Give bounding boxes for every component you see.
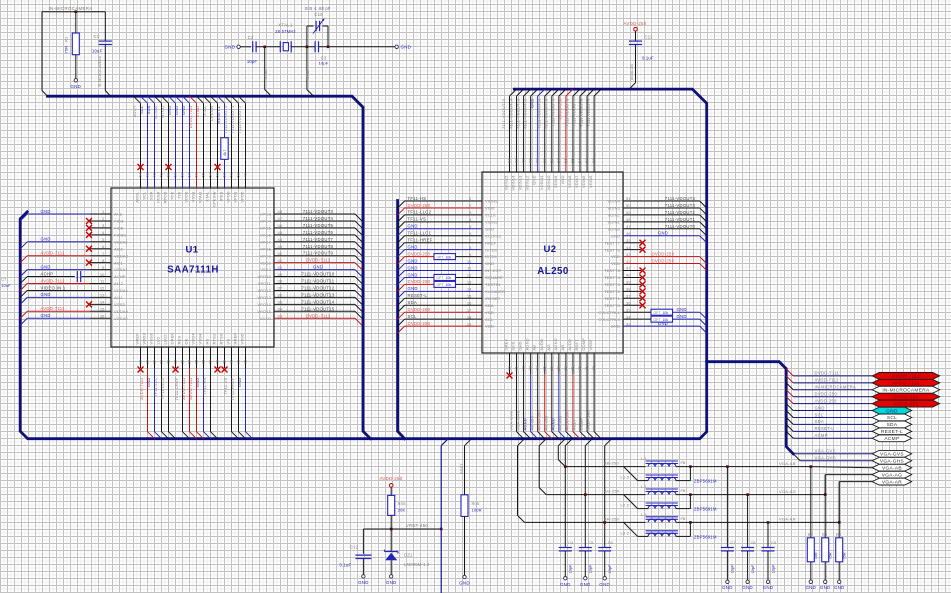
svg-text:7111-VDOUT12: 7111-VDOUT12	[522, 98, 527, 129]
svg-text:AVDD-250: AVDD-250	[893, 401, 918, 407]
svg-text:FIDE: FIDE	[114, 226, 124, 231]
svg-text:GND: GND	[677, 307, 687, 312]
wire U2 pin 60 to U2 top bus	[538, 89, 545, 96]
wire U2 pin 55 to U2 top bus	[573, 89, 580, 96]
svg-text:IN-MICROCAMERA: IN-MICROCAMERA	[882, 387, 930, 393]
svg-text:AVDD: AVDD	[539, 339, 544, 350]
wire U1 pin 32 to bottom bus, net GND	[245, 368, 247, 432]
junction	[327, 46, 330, 49]
svg-text:GHS: GHS	[518, 341, 523, 350]
U2 pin 23 (AGND) bottom stub	[530, 353, 532, 374]
inductor L2 (dual winding ferrite)	[646, 488, 678, 490]
wire U2 pin 14 to TF11 bus, net GND	[405, 290, 482, 292]
zener diode DZ1	[390, 529, 392, 552]
wire U1 pin 39 to bus, net 7111-VDOUT10	[274, 276, 355, 278]
svg-text:VREF-250: VREF-250	[406, 523, 428, 528]
wire U1 pin 18 to bottom bus, net AVDD-7111	[147, 368, 149, 432]
wire U2 pin 52 to U2 top bus	[594, 89, 601, 96]
svg-text:0.1uF: 0.1uF	[642, 56, 654, 61]
wire U2 pin 48 to bus, net 7111-VDOUT1	[623, 221, 700, 223]
U1 pin 21 (LLC2) bottom stub	[168, 347, 170, 368]
svg-text:U2: U2	[544, 244, 557, 255]
svg-text:VGA-AB: VGA-AB	[882, 465, 902, 471]
svg-text:DVDD-250: DVDD-250	[408, 251, 431, 256]
svg-text:ISTD1: ISTD1	[485, 254, 498, 259]
svg-text:5: 5	[469, 224, 472, 229]
U1 pin 1 (AI-E) left stub	[90, 213, 111, 215]
svg-text:GND: GND	[805, 585, 816, 590]
wire U2 pin 21 to bottom bus, net VGA-GVS	[516, 374, 518, 432]
no-connect X on U2 pin 38	[640, 288, 646, 294]
svg-text:C8: C8	[751, 541, 756, 545]
no-connect X on U1 pin 64	[138, 164, 144, 170]
junction	[440, 528, 443, 531]
svg-text:IN-MICROCAMERA: IN-MICROCAMERA	[49, 6, 93, 11]
svg-text:31: 31	[584, 365, 589, 370]
wire bus TOP-U1 (net bundle over SAA7111H)	[48, 96, 371, 439]
wire U1 pin 36 to bus, net 7111-VDOUT13	[274, 296, 355, 298]
wire U2 pin 6 to TF11 bus, net TF11-LLC1	[405, 235, 482, 237]
svg-text:7111-VDOUT6: 7111-VDOUT6	[579, 98, 584, 127]
net flag VGA-GHS	[872, 457, 912, 464]
svg-text:39: 39	[626, 280, 631, 285]
svg-text:39: 39	[278, 272, 283, 277]
svg-text:19: 19	[467, 321, 472, 326]
svg-text:VPO3: VPO3	[260, 212, 272, 217]
svg-text:RESET-L: RESET-L	[815, 426, 835, 431]
wire U1 pin 54 to top bus	[204, 96, 211, 103]
resistor OPT pull on U2 pin 34	[651, 316, 673, 322]
svg-text:AR-250: AR-250	[604, 516, 620, 521]
junction	[689, 493, 692, 496]
svg-text:28: 28	[215, 359, 220, 364]
svg-text:61: 61	[159, 172, 164, 177]
svg-text:AVDD-7111: AVDD-7111	[188, 377, 193, 400]
U1 pin 56 (VSS1) top stub	[196, 103, 198, 188]
svg-text:VDIN1: VDIN1	[607, 219, 620, 224]
svg-text:AVDD-7111: AVDD-7111	[41, 278, 66, 283]
svg-text:10pF: 10pF	[589, 564, 593, 574]
svg-text:2: 2	[102, 216, 105, 221]
svg-text:TESTT2: TESTT2	[604, 289, 620, 294]
ground	[584, 577, 587, 580]
svg-text:46: 46	[626, 231, 631, 236]
svg-text:GND: GND	[70, 84, 81, 89]
wire U1 pin 42 to bus, net 7111-VDOUT9	[274, 255, 355, 257]
svg-text:GND: GND	[658, 321, 668, 326]
svg-text:ZBF5691M: ZBF5691M	[694, 534, 717, 539]
svg-text:7111-VDOUT4: 7111-VDOUT4	[665, 196, 696, 201]
U1 pin 57 (VDD1) top stub	[189, 103, 191, 188]
wire U1 pin 56 to top bus	[190, 96, 197, 103]
svg-text:VDD: VDD	[485, 324, 494, 329]
svg-text:TESTT6: TESTT6	[604, 247, 620, 252]
wire U2 pin 2 to TF11 bus, net DVDD-250	[405, 207, 482, 209]
capacitor C7 (series on ACHP wire)	[76, 271, 78, 282]
no-connect X on U1 pin 6	[86, 246, 92, 252]
no-connect X on U1 pin 60	[166, 164, 172, 170]
svg-text:12: 12	[100, 286, 105, 291]
wire lower winding right (joins upper)	[676, 508, 691, 510]
svg-text:CPESW: CPESW	[209, 105, 214, 121]
capacitor C1	[99, 40, 112, 42]
svg-text:VID0: VID0	[485, 206, 495, 211]
svg-text:25: 25	[194, 359, 199, 364]
svg-text:GND: GND	[41, 209, 51, 214]
svg-text:10: 10	[467, 259, 472, 264]
svg-text:INT-EXT: INT-EXT	[485, 268, 502, 273]
svg-text:VGA-GVS: VGA-GVS	[815, 449, 836, 454]
wire U2 pin 62 to U2 top bus	[524, 89, 531, 96]
svg-text:ZBF5691M: ZBF5691M	[694, 479, 717, 484]
net flag DVDD-7111	[872, 373, 940, 380]
resistor R4 termination	[838, 482, 840, 538]
svg-text:SAA7111H: SAA7111H	[167, 265, 219, 276]
wire R4 to GND	[838, 562, 840, 580]
svg-text:FB: FB	[681, 461, 686, 465]
U2 pin 61 (VDIN12) top stub	[530, 96, 532, 172]
svg-text:45: 45	[278, 230, 283, 235]
wire AGND drop to C4	[565, 439, 572, 446]
wire U2 pin 15 to TF11 bus, net RESET-L	[405, 297, 482, 299]
svg-text:38: 38	[278, 279, 283, 284]
svg-text:SDA: SDA	[149, 191, 154, 200]
svg-text:64: 64	[138, 172, 143, 177]
svg-text:7111-VDOUT1: 7111-VDOUT1	[665, 217, 696, 222]
svg-text:LM385M-1.2: LM385M-1.2	[404, 562, 430, 567]
svg-text:AB: AB	[532, 345, 537, 351]
resistor R7 (on RESET-L wire)	[221, 138, 228, 160]
svg-text:GND: GND	[408, 244, 418, 249]
svg-text:C9: C9	[771, 541, 776, 545]
wire U1 pin 26 to bottom bus, net GND	[203, 368, 205, 432]
wire lower winding right (joins upper)	[676, 480, 691, 482]
svg-text:1: 1	[469, 196, 472, 201]
no-connect X on U2 pin 45	[640, 240, 646, 246]
svg-text:DVDD-7111: DVDD-7111	[815, 371, 840, 376]
wire U2 pin 34 to bus, net GND	[673, 318, 700, 320]
svg-text:11: 11	[467, 266, 472, 271]
resistor R1	[75, 12, 77, 33]
wire to flag DVDD-250	[786, 390, 793, 397]
svg-text:TF11-HREF: TF11-HREF	[408, 238, 433, 243]
svg-text:44: 44	[626, 245, 631, 250]
svg-text:75R: 75R	[829, 552, 833, 559]
wire U2 pin 9 to TF11 bus, net DVDD-250	[405, 256, 434, 258]
wire U2 pin 31 to bottom bus, net COMP	[586, 374, 588, 432]
svg-text:VPO8: VPO8	[260, 246, 272, 251]
svg-text:XTALI: XTALI	[264, 69, 268, 79]
svg-text:AL250: AL250	[537, 266, 569, 277]
wire bus TF11 (between U1 and U2, x=397.6)	[398, 201, 405, 439]
svg-text:TF11-LLC: TF11-LLC	[153, 378, 158, 397]
wire U2 pin 43 to bus, net DVDD-250	[623, 256, 700, 258]
svg-text:34: 34	[626, 314, 631, 319]
svg-text:33: 33	[626, 321, 631, 326]
wire C11 to U2 top bus	[635, 45, 637, 83]
svg-text:SDA: SDA	[485, 303, 494, 308]
U1 pin 29 (RTS0) bottom stub	[224, 347, 226, 368]
U2 pin 28 (AR) bottom stub	[565, 353, 567, 374]
ground	[824, 580, 827, 583]
svg-text:14: 14	[100, 300, 105, 305]
svg-text:7111-VDOUT5: 7111-VDOUT5	[303, 223, 334, 228]
svg-text:32: 32	[591, 365, 596, 370]
U1 pin 7 (VDDA2) left stub	[90, 255, 111, 257]
svg-text:DVDD-7111: DVDD-7111	[306, 258, 331, 263]
svg-text:50: 50	[236, 172, 241, 177]
svg-text:C2: C2	[248, 35, 254, 40]
svg-text:AI21: AI21	[114, 260, 123, 265]
svg-text:AI22: AI22	[114, 246, 123, 251]
resistor R06 (RSET)	[465, 439, 472, 446]
svg-text:52: 52	[222, 172, 227, 177]
svg-text:R05: R05	[398, 501, 406, 506]
svg-text:GND: GND	[408, 224, 418, 229]
wire U2 pin 56 to U2 top bus	[566, 89, 573, 96]
svg-text:C11: C11	[645, 35, 653, 40]
svg-text:34: 34	[278, 307, 283, 312]
wire choke output	[676, 521, 839, 523]
svg-text:TF11-LLC2: TF11-LLC2	[408, 210, 432, 215]
svg-text:RTCO: RTCO	[163, 192, 168, 204]
svg-text:7111-VDOUT10: 7111-VDOUT10	[544, 98, 549, 129]
ground	[746, 580, 749, 583]
wire AR-250 from bus	[518, 439, 525, 446]
svg-text:75R: 75R	[814, 552, 818, 559]
svg-text:25: 25	[542, 365, 547, 370]
svg-text:VCLK: VCLK	[485, 213, 496, 218]
svg-text:VIDHS: VIDHS	[485, 199, 498, 204]
wire U1 pin 27 to bottom bus, net TF11-HS	[210, 368, 212, 432]
wire U1 pin 55 to top bus	[197, 96, 204, 103]
U2 pin 27 (AGND) bottom stub	[558, 353, 560, 374]
svg-text:AVDD-250: AVDD-250	[379, 476, 402, 481]
svg-text:36: 36	[626, 300, 631, 305]
svg-text:VDIN2: VDIN2	[607, 213, 620, 218]
resistor R3 termination	[824, 475, 826, 538]
U1 pin 17 (VREF) bottom stub	[140, 347, 142, 368]
U1 pin 55 (XTALI) top stub	[203, 103, 205, 188]
svg-text:VSS4: VSS4	[198, 333, 203, 344]
svg-text:18: 18	[145, 359, 150, 364]
svg-text:64: 64	[507, 158, 512, 163]
svg-text:VDIN3: VDIN3	[607, 206, 620, 211]
svg-text:AG-250: AG-250	[604, 489, 620, 494]
svg-text:VGA-AR: VGA-AR	[882, 479, 902, 485]
svg-text:61: 61	[528, 158, 533, 163]
svg-text:20: 20	[507, 365, 512, 370]
svg-text:10pF: 10pF	[771, 564, 775, 574]
svg-text:VIDEO IN 1: VIDEO IN 1	[41, 285, 66, 290]
svg-text:L1.2: L1.2	[621, 475, 630, 480]
svg-text:FID3: FID3	[114, 219, 124, 224]
svg-text:29: 29	[222, 359, 227, 364]
wire U1 pin 43 to bus, net 7111-VDOUT8	[274, 248, 355, 250]
svg-text:XTAL: XTAL	[306, 70, 310, 79]
svg-text:VPO15: VPO15	[257, 309, 271, 314]
svg-text:VDD: VDD	[611, 261, 620, 266]
svg-text:7111-VDOUT9: 7111-VDOUT9	[303, 251, 334, 256]
svg-text:VIDNS: VIDNS	[485, 219, 498, 224]
svg-text:4k7: 4k7	[223, 150, 227, 156]
svg-text:VGA-AR: VGA-AR	[779, 517, 796, 522]
svg-text:VPO14: VPO14	[257, 302, 271, 307]
svg-text:R06: R06	[472, 501, 480, 506]
svg-text:62: 62	[152, 172, 157, 177]
wire to flag IN-MICROCAMERA	[786, 383, 793, 390]
wire to VGA flag	[824, 475, 826, 495]
svg-text:TESTIN: TESTIN	[485, 282, 500, 287]
wire R06 to GND	[464, 516, 466, 575]
U2 pin 56 (VDD) top stub	[565, 96, 567, 172]
svg-text:9: 9	[102, 265, 105, 270]
svg-text:XTALI: XTALI	[198, 192, 203, 204]
svg-text:ISTD0: ISTD0	[485, 247, 498, 252]
U1 pin 19 (VSS3) bottom stub	[154, 347, 156, 368]
svg-text:24: 24	[535, 365, 540, 370]
wire U2 pin 35 to bus, net GND	[673, 311, 700, 313]
wire lower winding right (joins upper)	[676, 535, 691, 537]
no-connect X on U2 pin 40	[640, 274, 646, 280]
wire U1 pin 23 to bottom bus, net TF11-CREF	[182, 368, 184, 432]
svg-text:13: 13	[467, 280, 472, 285]
wire C4 to GND	[564, 551, 566, 576]
svg-text:AVDD-250: AVDD-250	[815, 398, 837, 403]
svg-text:VPO0: VPO0	[226, 191, 231, 203]
capacitor C9 tap	[767, 522, 769, 547]
junction node XTALI	[263, 46, 266, 49]
wire U2 pin 16 to TF11 bus, net SDA	[405, 304, 482, 306]
svg-text:7111-VDOUT0: 7111-VDOUT0	[665, 224, 696, 229]
svg-text:7111-VDOUT3: 7111-VDOUT3	[665, 203, 696, 208]
svg-text:50: 50	[626, 203, 631, 208]
svg-text:7: 7	[469, 238, 472, 243]
svg-text:57: 57	[556, 158, 561, 163]
wire U1 pin 1 to left bus, net GND	[27, 213, 90, 215]
svg-text:26: 26	[201, 359, 206, 364]
junction	[746, 493, 749, 496]
svg-text:GND: GND	[41, 292, 51, 297]
svg-text:21: 21	[166, 359, 171, 364]
svg-text:45: 45	[626, 238, 631, 243]
wire U1 pin 53 to top bus	[211, 96, 218, 103]
svg-text:7111-VDOUT14: 7111-VDOUT14	[508, 98, 513, 129]
svg-text:GND: GND	[611, 324, 620, 329]
svg-text:GND: GND	[529, 99, 534, 109]
wire U1 pin 64 to top bus	[134, 96, 141, 103]
ground	[603, 577, 606, 580]
svg-text:19: 19	[152, 359, 157, 364]
svg-text:GND: GND	[146, 378, 151, 388]
resistor R2 termination	[810, 467, 812, 538]
wire C7 to GND	[726, 551, 728, 580]
svg-text:TESTT0: TESTT0	[604, 303, 620, 308]
svg-text:VPO11: VPO11	[258, 281, 272, 286]
svg-text:GND: GND	[459, 581, 470, 586]
svg-text:SCL: SCL	[887, 415, 897, 421]
svg-text:AVDD-7111: AVDD-7111	[41, 306, 66, 311]
svg-text:VPO12: VPO12	[257, 288, 271, 293]
svg-text:GND: GND	[313, 265, 323, 270]
wire U1 pin 62 to top bus	[148, 96, 155, 103]
U2 pin 21 (GVS) bottom stub	[516, 353, 518, 374]
svg-text:29: 29	[570, 365, 575, 370]
svg-text:GND: GND	[225, 44, 236, 49]
svg-text:AI12: AI12	[114, 281, 123, 286]
U1 pin 32 (VSS5) bottom stub	[245, 347, 247, 368]
svg-text:AVDD-7111: AVDD-7111	[41, 251, 66, 256]
wire U1 pin 51 to top bus	[225, 96, 232, 103]
svg-text:RESET-L: RESET-L	[881, 429, 903, 435]
svg-text:U1: U1	[186, 245, 199, 256]
svg-text:AVDD-7111: AVDD-7111	[139, 377, 144, 400]
ground	[726, 580, 729, 583]
svg-text:31: 31	[236, 359, 241, 364]
svg-text:41: 41	[626, 266, 631, 271]
junction	[838, 521, 841, 524]
svg-text:XLOADER: XLOADER	[485, 289, 505, 294]
wire trimmer branch	[306, 26, 308, 47]
U2 pin 20 (GREF) bottom stub	[509, 353, 511, 374]
U2 pin 29 (AVDD) bottom stub	[572, 353, 574, 374]
svg-text:18: 18	[467, 314, 472, 319]
svg-text:13: 13	[100, 293, 105, 298]
svg-text:75R: 75R	[64, 46, 69, 54]
svg-text:GND: GND	[560, 582, 571, 587]
svg-text:VGA-AG: VGA-AG	[779, 489, 796, 494]
crystal XTAL1	[279, 41, 281, 52]
svg-text:R4: R4	[836, 533, 841, 537]
svg-text:10pF: 10pF	[247, 59, 258, 64]
svg-text:C5: C5	[588, 541, 593, 545]
U1 pin 30 (VS) bottom stub	[231, 347, 233, 368]
svg-text:AGND: AGND	[551, 418, 556, 430]
svg-text:40: 40	[278, 265, 283, 270]
U1 pin 11 (AI12) left stub	[90, 283, 111, 285]
wire U2 pin 7 to TF11 bus, net TF11-HREF	[405, 242, 482, 244]
svg-text:FWBS: FWBS	[114, 232, 126, 237]
net flag SDA	[872, 421, 912, 428]
svg-text:B.B 4..68 pF: B.B 4..68 pF	[305, 6, 331, 11]
svg-text:35: 35	[626, 307, 631, 312]
svg-text:L.3: L.3	[641, 513, 647, 517]
wire U2 pin 10 to TF11 bus, net GND	[405, 263, 482, 265]
svg-text:VDIN0: VDIN0	[607, 226, 620, 231]
svg-text:COMP: COMP	[579, 418, 584, 431]
net flag VGA-AG	[872, 471, 912, 478]
U1 pin 20 (LLC) bottom stub	[161, 347, 163, 368]
wire to flag AVDD-250	[786, 397, 793, 404]
wire R1 to GND	[75, 55, 77, 79]
U2 pin 58 (VDIN10) top stub	[551, 96, 553, 172]
wire U2 pin 47 to bus, net 7111-VDOUT0	[623, 228, 700, 230]
svg-text:11: 11	[100, 279, 105, 284]
svg-text:49: 49	[243, 172, 248, 177]
svg-text:46: 46	[278, 223, 283, 228]
wire U1 pin 46 to bus, net 7111-VDOUT5	[274, 227, 355, 229]
svg-text:DZ1: DZ1	[404, 553, 413, 558]
wire U1 pin 11 to left bus, net AVDD-7111	[27, 283, 90, 285]
svg-text:TESTT1: TESTT1	[604, 296, 620, 301]
wire U2 pin 17 to TF11 bus, net DVDD-250	[405, 311, 482, 313]
wire to flag GND	[786, 404, 793, 411]
U1 pin 62 (SDA) top stub	[154, 103, 156, 188]
U1 pin 58 (TDI) top stub	[182, 103, 184, 188]
svg-text:63: 63	[145, 172, 150, 177]
svg-text:41: 41	[278, 258, 283, 263]
svg-text:62: 62	[521, 158, 526, 163]
